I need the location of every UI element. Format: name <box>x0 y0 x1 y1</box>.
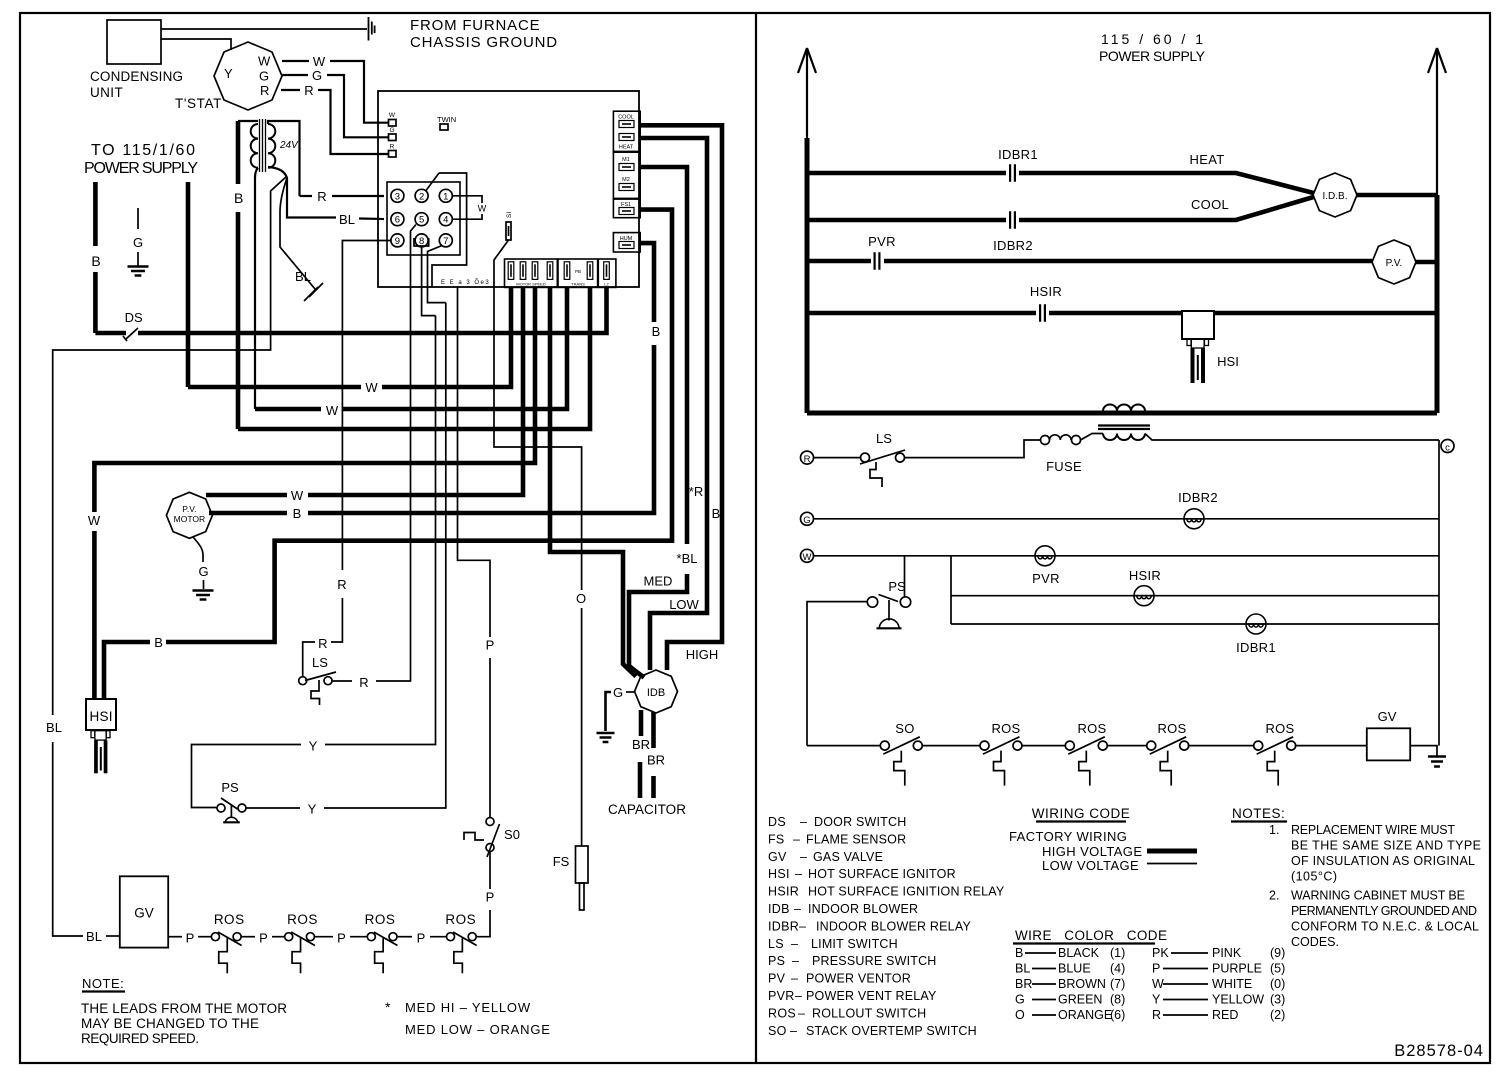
svg-text:HSIR: HSIR <box>768 885 799 899</box>
indoor blower I.D.B. octagon <box>1313 173 1357 217</box>
svg-text:M1: M1 <box>622 157 630 163</box>
svg-text:E E a 3 Õe3: E E a 3 Õe3 <box>441 279 490 286</box>
svg-text:HEAT: HEAT <box>619 145 634 151</box>
svg-text:(3): (3) <box>1270 993 1285 1007</box>
wire W supply vertical <box>186 182 191 387</box>
wire GV to ROS1 <box>168 936 182 938</box>
relay coil PVR <box>1035 546 1055 566</box>
svg-text:HEAT: HEAT <box>1190 152 1225 167</box>
svg-text:FLAME SENSOR: FLAME SENSOR <box>806 832 906 846</box>
wire BR right <box>651 712 656 748</box>
svg-text:Y: Y <box>224 66 233 81</box>
rollout switch ROS4 <box>447 933 455 941</box>
relay coil HSIR <box>1134 586 1154 606</box>
capacitor lead left <box>638 762 643 798</box>
svg-text:MOTOR SPEED: MOTOR SPEED <box>516 282 546 287</box>
svg-text:NOTES:: NOTES: <box>1232 806 1285 821</box>
svg-text:Y: Y <box>309 739 318 754</box>
svg-text:–: – <box>793 832 800 846</box>
svg-text:REPLACEMENT WIRE MUST: REPLACEMENT WIRE MUST <box>1291 823 1455 837</box>
svg-text:HSIR: HSIR <box>1030 284 1062 299</box>
svg-text:W: W <box>313 54 326 69</box>
svg-text:Y: Y <box>1152 993 1161 1007</box>
wire secondary right to C <box>1145 434 1439 441</box>
svg-text:W: W <box>291 488 304 503</box>
supply ground stub <box>137 208 139 229</box>
svg-text:IDBR1: IDBR1 <box>998 147 1038 162</box>
svg-text:–: – <box>795 867 802 881</box>
svg-text:IDBR2: IDBR2 <box>993 238 1033 253</box>
rollout switch ROS2 (ladder) <box>1065 741 1074 750</box>
wire W to PS <box>904 556 906 597</box>
svg-text:ROS: ROS <box>365 912 396 927</box>
ladder transformer core <box>1098 426 1150 430</box>
svg-text:P: P <box>1152 962 1160 976</box>
wire P SO to ROS4 <box>489 852 491 890</box>
svg-text:LOW VOLTAGE: LOW VOLTAGE <box>1042 858 1139 873</box>
svg-text:B: B <box>1015 946 1023 960</box>
svg-text:COOL: COOL <box>618 115 634 121</box>
svg-text:W: W <box>803 552 812 563</box>
board terminal G <box>389 134 397 141</box>
svg-text:BR: BR <box>632 737 650 752</box>
svg-text:(1): (1) <box>1110 946 1125 960</box>
wire IDBR1 rung left <box>951 623 1439 625</box>
svg-text:P: P <box>486 638 495 653</box>
svg-text:CONDENSING: CONDENSING <box>90 69 183 84</box>
svg-text:GV: GV <box>1378 709 1397 724</box>
wire O SI to FS <box>494 240 582 590</box>
wire DS line B <box>95 331 126 336</box>
svg-text:BR: BR <box>647 753 665 768</box>
svg-text:PVR: PVR <box>1032 571 1060 586</box>
wire condensing unit to t'stat <box>161 39 231 50</box>
svg-text:INDOOR BLOWER: INDOOR BLOWER <box>808 902 918 916</box>
svg-text:INDOOR BLOWER RELAY: INDOOR BLOWER RELAY <box>816 919 971 933</box>
wire B to board <box>238 287 590 429</box>
svg-text:3: 3 <box>395 191 400 202</box>
svg-text:PRESSURE SWITCH: PRESSURE SWITCH <box>812 954 937 968</box>
svg-text:O: O <box>576 591 586 606</box>
svg-text:BL: BL <box>295 269 311 284</box>
svg-text:2.: 2. <box>1269 889 1279 903</box>
wire G rung left <box>813 518 1439 520</box>
wire B P.V. motor <box>209 511 287 516</box>
rollout switch ROS3 <box>367 933 375 941</box>
terminal strip 2 <box>558 259 598 287</box>
svg-text:–: – <box>800 815 807 829</box>
svg-text:LIMIT SWITCH: LIMIT SWITCH <box>811 937 898 951</box>
svg-text:BL: BL <box>86 929 102 944</box>
wire bottom rung segment 5 <box>1188 745 1254 747</box>
wire W1 to board <box>188 385 361 390</box>
relay coil IDBR2 <box>1184 509 1204 529</box>
svg-text:ROS: ROS <box>214 912 245 927</box>
svg-text:–: – <box>792 954 799 968</box>
svg-text:NOTE:: NOTE: <box>82 976 124 991</box>
svg-text:HSI: HSI <box>768 867 790 881</box>
connector pin 4 <box>439 213 452 226</box>
svg-text:W: W <box>88 513 101 528</box>
contact IDBR2 <box>1010 211 1015 229</box>
svg-text:ROS: ROS <box>445 912 476 927</box>
svg-text:IDB: IDB <box>768 902 790 916</box>
svg-text:CHASSIS GROUND: CHASSIS GROUND <box>410 34 558 51</box>
svg-text:–: – <box>791 937 798 951</box>
gas valve GV (ladder) <box>1367 728 1410 760</box>
wire Y1 <box>325 316 436 745</box>
svg-text:P: P <box>337 931 346 946</box>
svg-text:BLUE: BLUE <box>1058 962 1091 976</box>
svg-text:HSI: HSI <box>1217 354 1239 369</box>
svg-text:ROS: ROS <box>1265 721 1294 736</box>
svg-text:R: R <box>337 577 346 592</box>
svg-text:PS: PS <box>888 579 906 594</box>
svg-text:WIRE COLOR CODE: WIRE COLOR CODE <box>1015 928 1167 943</box>
svg-text:G: G <box>1015 993 1025 1007</box>
W bracket pins 1-4 <box>452 196 482 219</box>
svg-text:9: 9 <box>395 236 400 247</box>
svg-text:–: – <box>800 850 807 864</box>
svg-text:–: – <box>795 989 802 1003</box>
connector pin 7 <box>439 234 452 247</box>
wire R t'stat to board <box>281 90 389 154</box>
svg-text:B: B <box>154 635 163 650</box>
svg-text:BL: BL <box>339 212 355 227</box>
svg-text:IDB: IDB <box>647 687 665 699</box>
fuse FUSE <box>1041 436 1050 445</box>
panel divider <box>755 13 757 1063</box>
svg-text:TRANS: TRANS <box>571 282 585 287</box>
wire bottom rung segment 3 <box>1021 745 1065 747</box>
condensing unit box <box>107 20 161 64</box>
bottom rail <box>807 411 1437 416</box>
svg-text:24V: 24V <box>279 140 299 151</box>
chassis ground symbol <box>369 17 375 41</box>
svg-text:REQUIRED SPEED.: REQUIRED SPEED. <box>81 1031 199 1046</box>
node R <box>801 451 814 464</box>
svg-text:BL: BL <box>46 720 62 735</box>
svg-text:UNIT: UNIT <box>90 85 123 100</box>
indoor blower IDB octagon <box>635 670 678 713</box>
svg-text:WARNING CABINET MUST BE: WARNING CABINET MUST BE <box>1291 889 1465 903</box>
svg-text:ORANGE: ORANGE <box>1058 1008 1112 1022</box>
wire HEAT terminal to LOW <box>640 138 707 670</box>
svg-text:R: R <box>1152 1008 1161 1022</box>
contact IDBR1 <box>1010 164 1015 182</box>
terminal box COOL/HEAT <box>613 111 640 151</box>
rollout switch ROS1 <box>211 933 219 941</box>
svg-text:OF INSULATION AS ORIGINAL: OF INSULATION AS ORIGINAL <box>1291 854 1475 868</box>
svg-text:T'STAT: T'STAT <box>175 96 222 111</box>
svg-text:STACK OVERTEMP SWITCH: STACK OVERTEMP SWITCH <box>806 1024 977 1038</box>
rung2 wire right COOL <box>1019 197 1314 220</box>
transformer primary lead <box>238 120 258 122</box>
control board outline <box>378 91 639 287</box>
thermostat T'STAT octagon <box>214 42 282 110</box>
wire pin5 to LS <box>376 225 416 682</box>
rollout switch ROS3 (ladder) <box>1147 741 1156 750</box>
svg-text:R: R <box>804 454 811 465</box>
svg-text:G: G <box>198 564 208 579</box>
rollout switch ROS4 (ladder) <box>1254 741 1263 750</box>
svg-text:LS: LS <box>876 431 892 446</box>
svg-text:W: W <box>1152 977 1164 991</box>
rung1 wire right HEAT <box>1019 173 1314 193</box>
P.V. motor octagon <box>166 492 212 538</box>
svg-text:G: G <box>259 69 269 84</box>
svg-text:I.D.B.: I.D.B. <box>1322 191 1347 202</box>
svg-text:GREEN: GREEN <box>1058 993 1102 1007</box>
svg-text:CODES.: CODES. <box>1291 935 1339 949</box>
svg-text:4: 4 <box>443 215 448 226</box>
wire B supply vertical <box>93 182 98 246</box>
svg-text:7: 7 <box>443 236 448 247</box>
svg-text:B: B <box>712 506 721 521</box>
svg-text:L2: L2 <box>604 282 609 287</box>
wire W P.V. motor to board <box>206 493 287 498</box>
svg-text:R: R <box>260 83 269 98</box>
gas valve GV box <box>120 876 168 947</box>
svg-text:MAY BE CHANGED TO THE: MAY BE CHANGED TO THE <box>81 1016 259 1031</box>
svg-text:BROWN: BROWN <box>1058 977 1106 991</box>
wire condensing unit to chassis ground <box>161 28 367 30</box>
wire G t'stat to board <box>282 75 389 137</box>
svg-text:(5): (5) <box>1270 962 1285 976</box>
hot surface ignitor HSI (ladder) <box>1182 311 1214 339</box>
svg-text:SO: SO <box>895 721 914 736</box>
svg-text:ROS: ROS <box>991 721 1020 736</box>
svg-text:G: G <box>312 68 322 83</box>
wire BL transformer to pin 6 <box>268 167 336 218</box>
svg-text:IDBR: IDBR <box>768 919 799 933</box>
svg-text:BL: BL <box>1015 962 1030 976</box>
svg-text:(6): (6) <box>1110 1008 1125 1022</box>
9-pin connector outer outline <box>432 173 467 287</box>
svg-text:IDBR1: IDBR1 <box>1236 640 1276 655</box>
svg-text:–: – <box>799 919 806 933</box>
svg-text:B28578-04: B28578-04 <box>1394 1042 1484 1060</box>
svg-text:(8): (8) <box>1110 993 1125 1007</box>
svg-text:DS: DS <box>768 815 786 829</box>
svg-text:R: R <box>317 189 326 204</box>
svg-text:POWER SUPPLY: POWER SUPPLY <box>1099 48 1206 64</box>
wire pin8 jog <box>414 238 429 246</box>
rung2 wire left <box>807 218 1006 223</box>
svg-text:–: – <box>798 1006 805 1020</box>
svg-text:MED: MED <box>644 574 673 589</box>
terminal box FS1 <box>613 199 640 218</box>
svg-text:R: R <box>359 675 368 690</box>
svg-text:BR: BR <box>1015 977 1032 991</box>
wire bottom rung segment 4 <box>1107 745 1146 747</box>
node W <box>801 549 814 562</box>
wire P ROS2-ROS3 <box>315 936 333 938</box>
svg-text:(9): (9) <box>1270 946 1285 960</box>
wire BL spare stub <box>280 178 315 289</box>
svg-text:c: c <box>1445 443 1450 454</box>
wire P ROS1-ROS2 <box>242 936 256 938</box>
svg-text:–: – <box>794 902 801 916</box>
wire R to pin 3 <box>332 195 384 197</box>
svg-text:PS: PS <box>221 780 239 795</box>
svg-text:DOOR SWITCH: DOOR SWITCH <box>814 815 906 829</box>
svg-text:B: B <box>234 190 243 206</box>
svg-text:B: B <box>91 253 100 269</box>
svg-text:(105°C): (105°C) <box>1291 870 1337 884</box>
ladder ground symbol <box>1428 757 1446 767</box>
svg-text:G: G <box>613 685 623 700</box>
svg-text:DS: DS <box>125 310 143 325</box>
wire BR left <box>639 710 644 736</box>
svg-text:LS: LS <box>768 937 784 951</box>
rung4 wire HSI to rail <box>1214 311 1437 316</box>
9-pin connector inner box <box>387 182 460 255</box>
right rail arrow <box>1428 48 1446 73</box>
svg-text:BLACK: BLACK <box>1058 946 1100 960</box>
wire COOL terminal to HIGH <box>640 125 722 670</box>
svg-text:P.V.: P.V. <box>182 504 196 514</box>
wire PS to left vertical <box>807 602 868 746</box>
svg-text:FS: FS <box>768 832 785 846</box>
rung3 wire right <box>884 259 1372 264</box>
svg-text:GV: GV <box>768 850 787 864</box>
svg-text:COOL: COOL <box>1191 197 1229 212</box>
svg-text:P: P <box>486 890 495 905</box>
svg-text:M2: M2 <box>622 177 630 183</box>
svg-text:ROS: ROS <box>1077 721 1106 736</box>
high voltage sample line <box>1147 849 1197 854</box>
wire W rung left <box>813 555 1439 557</box>
wire GV to ground <box>1410 746 1437 756</box>
svg-text:POWER SUPPLY: POWER SUPPLY <box>84 160 198 177</box>
board terminal W <box>389 120 397 127</box>
svg-text:MED LOW – ORANGE: MED LOW – ORANGE <box>405 1022 551 1037</box>
rollout switch ROS2 <box>285 933 293 941</box>
wire I.D.B. to right rail <box>1357 193 1437 198</box>
svg-text:TO 115/1/60: TO 115/1/60 <box>91 142 195 159</box>
wire LS to FUSE <box>905 440 1041 458</box>
terminal strip 1 (motor speeds) <box>505 259 558 287</box>
wire bottom rung segment 2 <box>922 745 980 747</box>
svg-text:–: – <box>790 1024 797 1038</box>
svg-text:115 / 60 / 1: 115 / 60 / 1 <box>1101 31 1203 47</box>
rung4 wire left <box>807 311 1036 316</box>
svg-text:POWER VENTOR: POWER VENTOR <box>806 972 911 986</box>
svg-text:PERMANENTLY GROUNDED AND: PERMANENTLY GROUNDED AND <box>1291 904 1477 918</box>
svg-text:FS: FS <box>553 854 570 869</box>
svg-text:*: * <box>385 999 391 1015</box>
wire P.V. to right rail <box>1416 260 1437 265</box>
svg-text:HSIR: HSIR <box>1129 568 1161 583</box>
svg-text:6: 6 <box>395 215 400 226</box>
svg-text:(7): (7) <box>1110 977 1125 991</box>
svg-text:LOW: LOW <box>669 597 699 612</box>
svg-text:MOTOR: MOTOR <box>174 514 205 524</box>
svg-text:(0): (0) <box>1270 977 1285 991</box>
svg-text:W: W <box>326 403 339 418</box>
svg-text:ROS: ROS <box>768 1006 796 1020</box>
svg-text:PS: PS <box>768 954 785 968</box>
terminal box M1/M2 <box>613 152 640 198</box>
svg-text:CONFORM TO N.E.C. & LOCAL: CONFORM TO N.E.C. & LOCAL <box>1291 920 1479 934</box>
svg-text:B: B <box>652 324 661 339</box>
relay coil IDBR1 <box>1246 614 1266 634</box>
wire P ROS3-ROS4 <box>398 936 412 938</box>
svg-text:G: G <box>389 127 394 134</box>
wire W branch vertical <box>950 556 952 624</box>
power ventor P.V. octagon <box>1372 240 1416 284</box>
wire pin9 to LS <box>342 241 391 571</box>
transformer primary winding <box>251 124 258 168</box>
svg-text:YELLOW: YELLOW <box>1212 993 1264 1007</box>
svg-text:WHITE: WHITE <box>1212 977 1252 991</box>
low voltage sample line <box>1147 863 1197 865</box>
svg-text:SO: SO <box>768 1024 787 1038</box>
low voltage return vertical <box>1438 440 1440 746</box>
connector pin 1 <box>439 189 452 202</box>
wire R to LS <box>813 457 861 459</box>
SI fuse <box>506 222 511 240</box>
svg-text:PV: PV <box>768 972 786 986</box>
svg-text:GV: GV <box>134 906 154 921</box>
svg-text:2: 2 <box>419 191 424 202</box>
transformer secondary top lead to R <box>268 121 312 196</box>
svg-text:PINK: PINK <box>1212 946 1242 960</box>
svg-text:ROLLOUT SWITCH: ROLLOUT SWITCH <box>812 1006 926 1020</box>
rung4 wire right <box>1049 311 1182 316</box>
svg-text:R: R <box>390 144 395 151</box>
wire B to HUM terminal <box>640 243 654 322</box>
svg-text:5: 5 <box>419 215 424 226</box>
connector pin 8 <box>415 234 428 247</box>
svg-text:FACTORY WIRING: FACTORY WIRING <box>1009 829 1127 844</box>
wire M1 terminal MED-HI <box>640 167 687 544</box>
svg-text:HOT SURFACE IGNITION RELAY: HOT SURFACE IGNITION RELAY <box>808 885 1005 899</box>
contact HSIR <box>1040 304 1045 322</box>
svg-text:ROS: ROS <box>287 912 318 927</box>
svg-text:–: – <box>791 972 798 986</box>
svg-text:P: P <box>259 931 268 946</box>
svg-text:PURPLE: PURPLE <box>1212 962 1262 976</box>
wire B transformer vertical <box>236 121 241 184</box>
svg-text:*BL: *BL <box>677 551 698 566</box>
svg-text:W: W <box>478 204 487 214</box>
svg-text:RED: RED <box>1212 1008 1238 1022</box>
svg-text:P: P <box>186 931 195 946</box>
wire B to HSI <box>166 210 672 642</box>
svg-text:HIGH: HIGH <box>686 647 719 662</box>
wire BL 24V common to GV <box>53 176 287 715</box>
svg-text:S0: S0 <box>504 827 520 842</box>
P.V. motor ground wire <box>193 537 203 562</box>
wire Y2 <box>246 807 300 809</box>
svg-text:CAPACITOR: CAPACITOR <box>608 802 686 817</box>
stack overtemp switch SO <box>486 818 494 826</box>
connector pin 6 <box>391 213 404 226</box>
svg-text:GAS VALVE: GAS VALVE <box>813 850 883 864</box>
connector pin 5 <box>415 213 428 226</box>
terminal box HUM <box>613 233 640 252</box>
left rail arrow <box>798 48 816 73</box>
stack overtemp switch SO (ladder) <box>880 741 889 750</box>
rung3 wire left <box>807 259 871 264</box>
node G <box>801 512 814 525</box>
svg-text:W: W <box>389 112 396 119</box>
svg-text:O: O <box>1015 1008 1025 1022</box>
svg-text:HSI: HSI <box>90 709 113 724</box>
transformer secondary winding <box>268 124 275 168</box>
